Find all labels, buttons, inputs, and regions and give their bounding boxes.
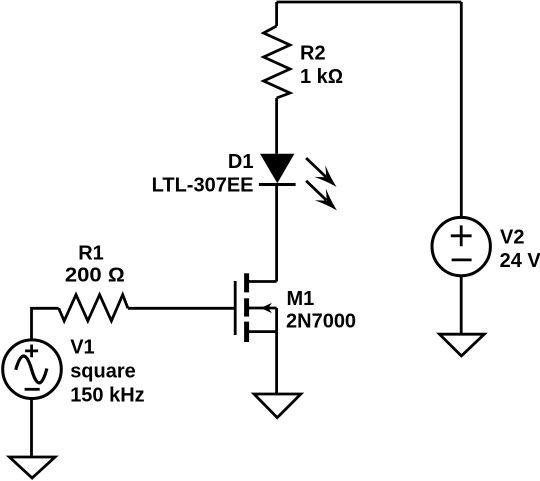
wire R2 to D1: [275, 98, 278, 154]
svg-text:R1: R1: [78, 242, 104, 264]
V1 minus sign: [25, 388, 40, 391]
wire top rail: [277, 1, 462, 4]
svg-text:200 Ω: 200 Ω: [65, 265, 125, 287]
M1 channel bar top: [244, 273, 249, 292]
M1 source horizontal: [247, 330, 277, 333]
ground below V1: [9, 457, 55, 478]
svg-text:R2: R2: [300, 43, 326, 65]
svg-text:V2: V2: [500, 226, 524, 248]
svg-text:M1: M1: [287, 288, 315, 310]
wire R1 to M1 gate: [128, 307, 235, 310]
svg-text:V1: V1: [70, 337, 94, 359]
M1 drain horizontal: [247, 280, 277, 283]
M1 body to source vertical: [275, 308, 278, 332]
resistor R1: [59, 295, 128, 321]
ground below V2: [440, 334, 485, 356]
LED light arrow 2: [306, 181, 342, 216]
V2 minus sign: [452, 258, 472, 261]
V2 plus sign: [451, 225, 472, 246]
M1 body line with arrow: [247, 303, 277, 313]
wire R2 top stub: [275, 2, 278, 26]
wire V1 bottom: [30, 398, 33, 456]
M1 channel bar middle: [244, 298, 249, 316]
V1 sine symbol: [16, 356, 47, 383]
wire V1 top to R1: [32, 308, 59, 340]
ground below M1: [254, 394, 301, 418]
svg-text:D1: D1: [228, 151, 254, 173]
wire D1 to M1 drain: [275, 185, 278, 282]
D1 cathode bar: [259, 183, 296, 186]
svg-text:square: square: [70, 361, 136, 383]
svg-text:2N7000: 2N7000: [286, 311, 356, 333]
wire right drop to V2: [460, 2, 463, 218]
M1 channel bar bottom: [244, 322, 249, 342]
resistor R2: [264, 26, 290, 98]
svg-text:24 V: 24 V: [500, 250, 540, 272]
source V1 circle: [3, 340, 62, 399]
svg-text:LTL-307EE: LTL-307EE: [152, 175, 254, 197]
wire M1 source down: [275, 332, 278, 394]
svg-text:150 kHz: 150 kHz: [70, 385, 145, 407]
LED D1: [260, 154, 294, 184]
svg-text:1 kΩ: 1 kΩ: [300, 66, 343, 88]
source V2 circle: [432, 217, 490, 275]
LED light arrow 1: [306, 158, 342, 193]
wire V2 bottom: [460, 276, 463, 333]
V1 plus sign: [25, 345, 38, 358]
transistor M1 gate bar: [234, 281, 237, 335]
